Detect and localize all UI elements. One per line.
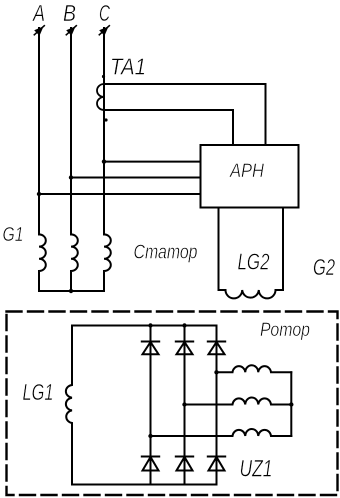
- svg-text:G1: G1: [3, 224, 24, 246]
- svg-text:UZ1: UZ1: [240, 456, 273, 483]
- svg-text:Ротор: Ротор: [260, 319, 310, 341]
- svg-text:АРН: АРН: [229, 161, 264, 182]
- svg-text:C: C: [99, 0, 111, 26]
- svg-text:B: B: [63, 0, 76, 26]
- svg-text:LG2: LG2: [238, 249, 270, 275]
- svg-text:G2: G2: [313, 254, 335, 280]
- svg-text:LG1: LG1: [23, 379, 54, 405]
- svg-text:TA1: TA1: [110, 54, 146, 80]
- svg-text:Статор: Статор: [134, 242, 198, 264]
- svg-text:A: A: [31, 0, 45, 26]
